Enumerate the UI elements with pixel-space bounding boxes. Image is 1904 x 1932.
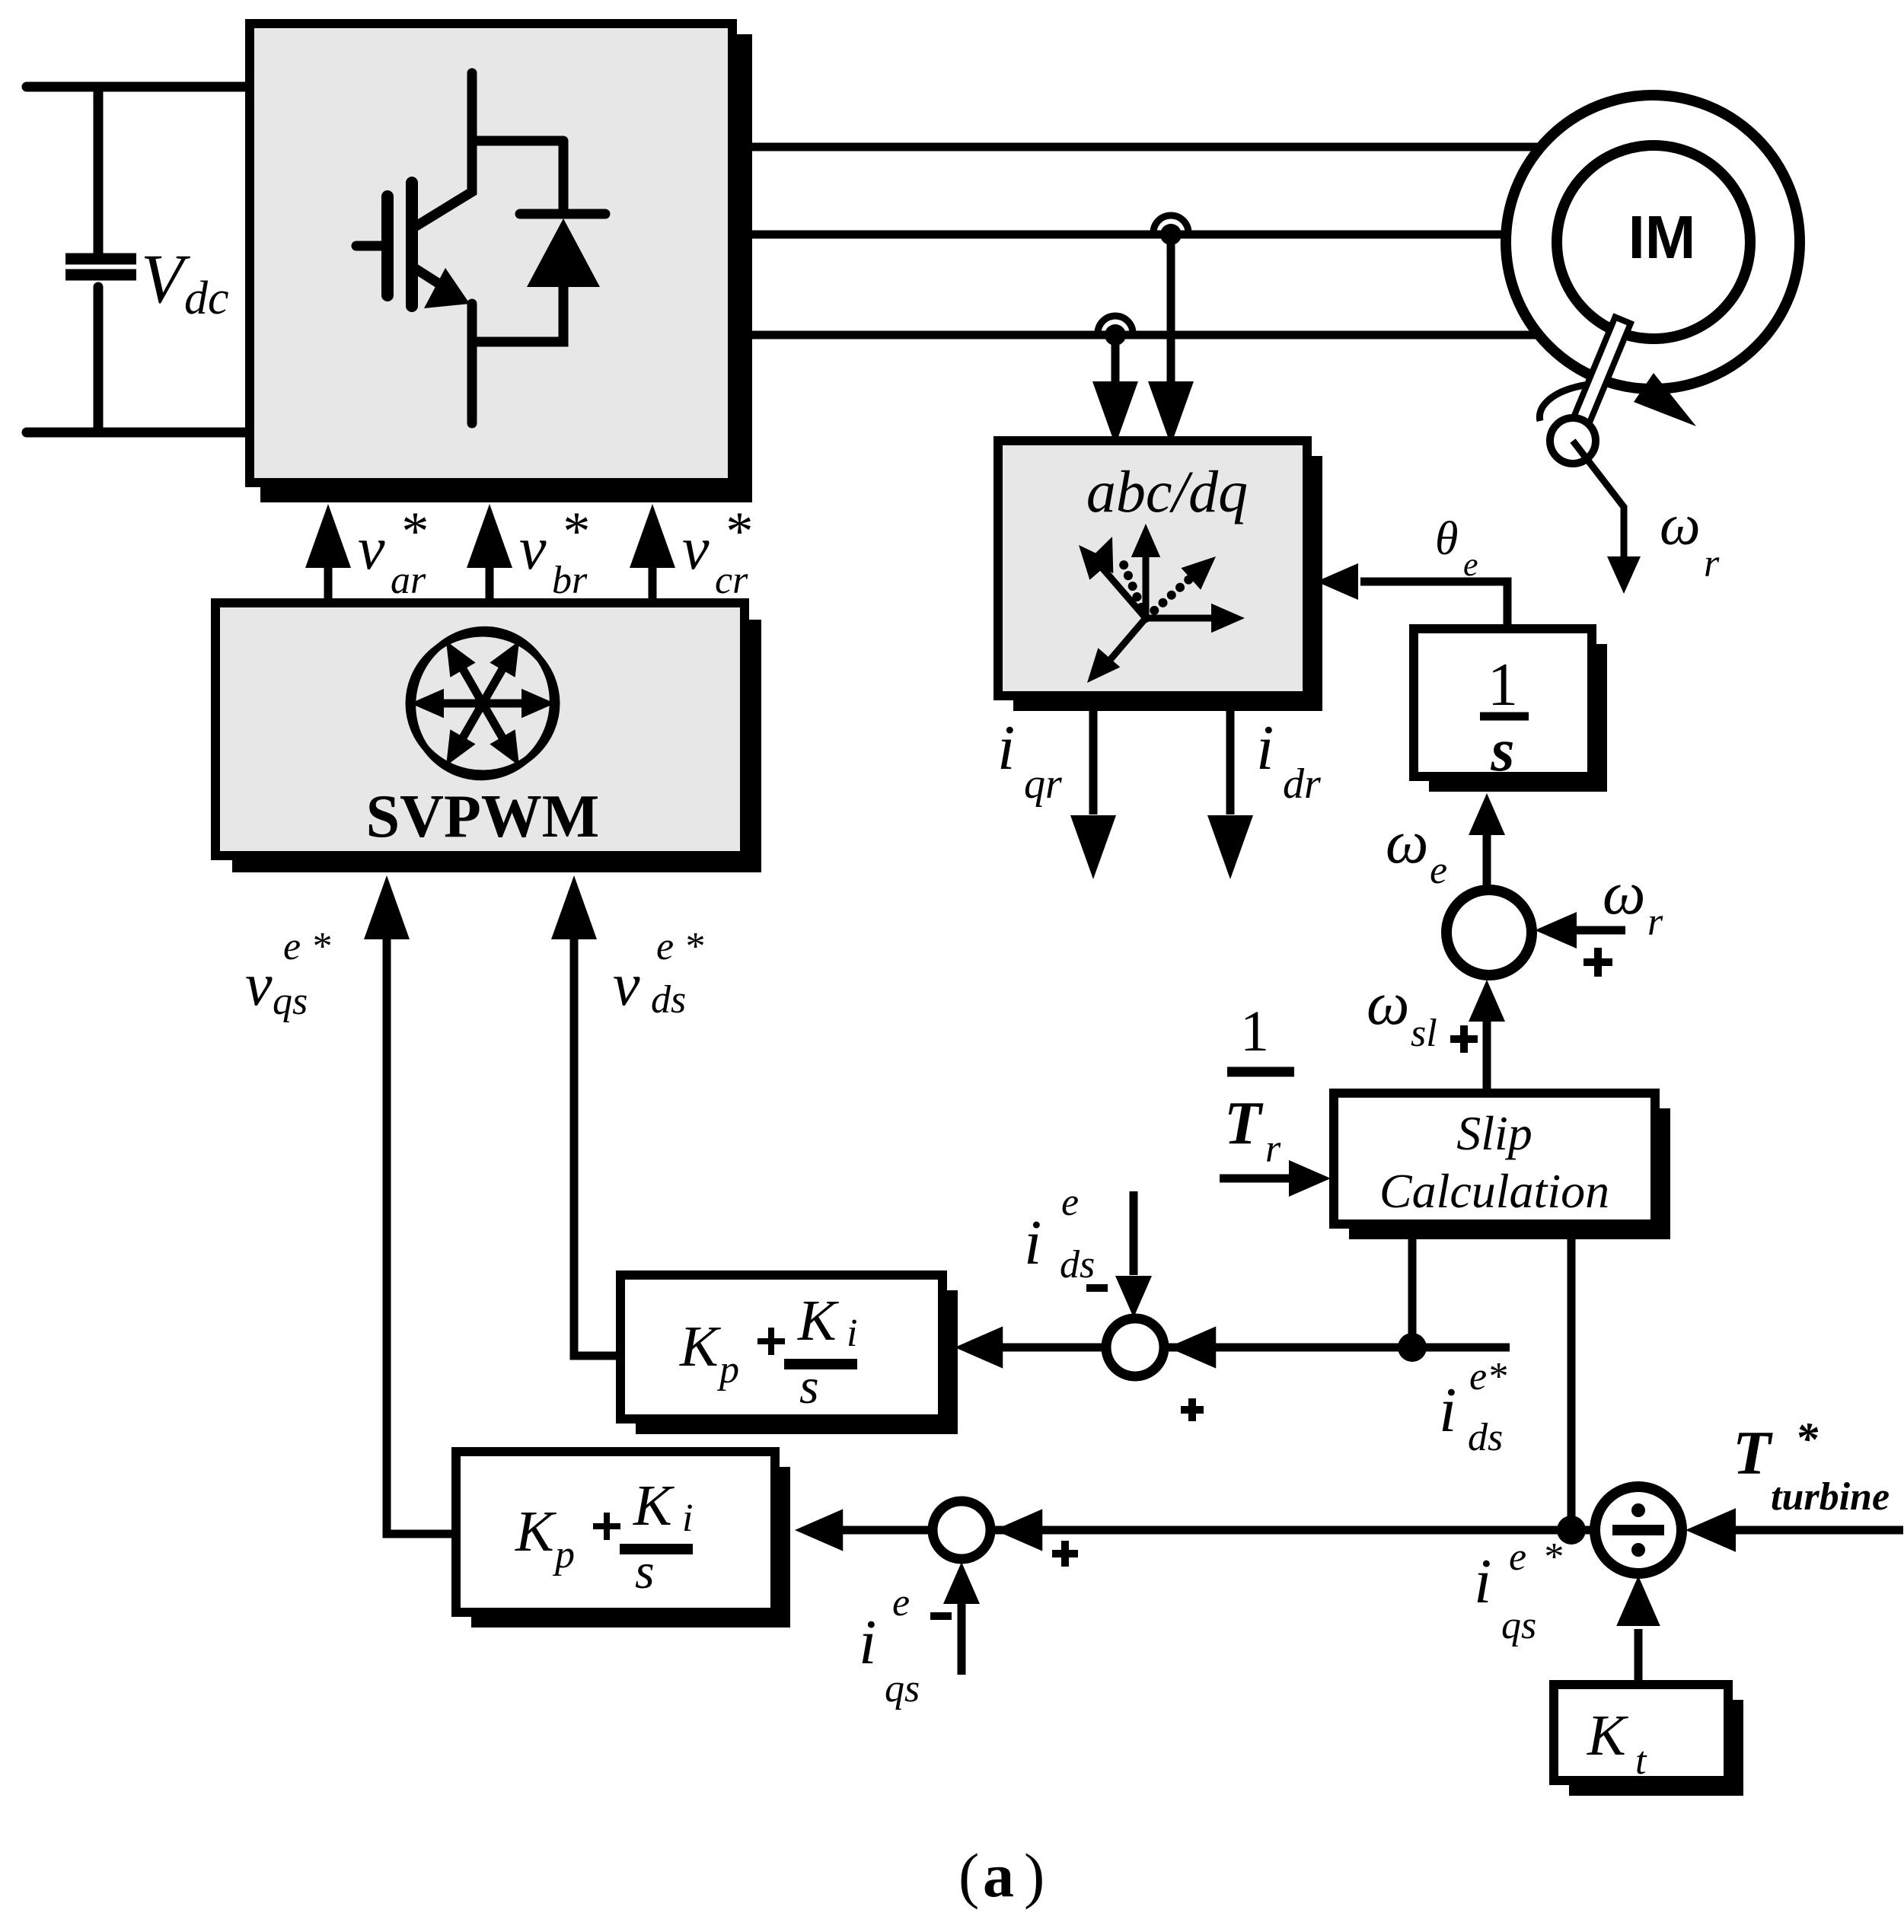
- svg-text:e*: e*: [1469, 1355, 1507, 1398]
- svg-text:qs: qs: [1501, 1604, 1536, 1647]
- svg-text:t: t: [1635, 1739, 1647, 1783]
- svg-text:SVPWM: SVPWM: [366, 783, 600, 850]
- svg-text:s: s: [799, 1359, 819, 1414]
- svg-text:e *: e *: [283, 925, 330, 968]
- svg-text:i: i: [847, 1312, 857, 1355]
- svg-text:ds: ds: [651, 978, 686, 1022]
- svg-text:*: *: [1795, 1414, 1819, 1464]
- svg-text:*: *: [560, 501, 588, 562]
- svg-text:Calculation: Calculation: [1379, 1164, 1609, 1218]
- svg-text:*: *: [1542, 1535, 1562, 1579]
- svg-text:Slip: Slip: [1456, 1106, 1532, 1160]
- svg-text:v: v: [245, 952, 273, 1019]
- svg-text:s: s: [1490, 717, 1514, 784]
- svg-text:*: *: [723, 501, 751, 562]
- svg-text:br: br: [552, 559, 588, 602]
- svg-text:e *: e *: [656, 925, 703, 968]
- svg-text:turbine: turbine: [1771, 1475, 1890, 1519]
- svg-text:dr: dr: [1283, 760, 1321, 808]
- svg-text:s: s: [635, 1544, 655, 1599]
- svg-text:ds: ds: [1060, 1243, 1095, 1286]
- svg-text:sl: sl: [1411, 1012, 1437, 1055]
- svg-text:v: v: [682, 515, 710, 582]
- svg-text:ω: ω: [1603, 860, 1645, 927]
- svg-text:T: T: [1224, 1090, 1264, 1157]
- svg-text:r: r: [1265, 1127, 1281, 1171]
- svg-text:e: e: [1463, 546, 1478, 583]
- svg-text:1: 1: [1488, 652, 1518, 719]
- svg-text:ω: ω: [1367, 971, 1409, 1038]
- svg-text:K: K: [633, 1474, 675, 1538]
- svg-text:ω: ω: [1386, 809, 1428, 876]
- svg-text:IM: IM: [1628, 203, 1696, 271]
- svg-text:i: i: [859, 1607, 876, 1678]
- svg-text:i: i: [1256, 713, 1274, 783]
- svg-text:ar: ar: [391, 559, 426, 602]
- svg-text:K: K: [679, 1315, 721, 1379]
- svg-text:a: a: [983, 1841, 1014, 1910]
- svg-text:(: (: [958, 1841, 979, 1910]
- svg-text:e: e: [1061, 1181, 1079, 1224]
- svg-text:K: K: [515, 1500, 557, 1564]
- svg-text:*: *: [399, 501, 426, 562]
- svg-text:v: v: [358, 515, 385, 582]
- svg-text:T: T: [1733, 1418, 1773, 1487]
- svg-text:p: p: [716, 1348, 739, 1392]
- svg-text:cr: cr: [715, 559, 748, 602]
- svg-text:abc/dq: abc/dq: [1086, 458, 1248, 524]
- svg-text:K: K: [797, 1289, 839, 1353]
- svg-text:): ): [1024, 1841, 1044, 1910]
- svg-text:i: i: [682, 1497, 693, 1540]
- svg-text:i: i: [1439, 1375, 1456, 1446]
- svg-text:e: e: [1430, 849, 1447, 892]
- svg-text:θ: θ: [1435, 513, 1458, 565]
- svg-text:p: p: [552, 1533, 575, 1577]
- svg-text:1: 1: [1240, 999, 1269, 1063]
- svg-text:v: v: [519, 515, 547, 582]
- svg-text:ω: ω: [1660, 493, 1701, 557]
- svg-text:r: r: [1647, 901, 1663, 944]
- svg-text:qs: qs: [273, 980, 308, 1023]
- svg-text:e: e: [1509, 1535, 1526, 1579]
- svg-text:qr: qr: [1024, 760, 1062, 808]
- svg-text:v: v: [613, 952, 640, 1019]
- svg-text:i: i: [997, 713, 1015, 783]
- svg-text:dc: dc: [184, 273, 229, 324]
- svg-text:r: r: [1704, 542, 1720, 585]
- svg-text:i: i: [1474, 1546, 1491, 1617]
- svg-text:K: K: [1587, 1704, 1628, 1768]
- svg-text:qs: qs: [885, 1667, 920, 1710]
- svg-text:i: i: [1024, 1207, 1041, 1278]
- svg-text:e: e: [892, 1581, 910, 1624]
- svg-text:ds: ds: [1468, 1416, 1503, 1459]
